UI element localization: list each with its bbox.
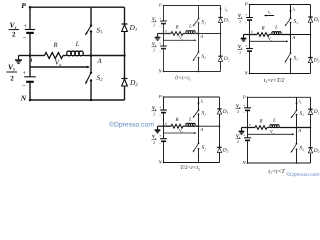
resistor sub2 R: [257, 33, 269, 37]
battery sub4 Vs/2 upper: [244, 107, 251, 109]
node sub1 0: [163, 33, 165, 35]
wire: left rail middle segment: [29, 33, 31, 77]
wire: sub2 branch left: [250, 34, 258, 36]
battery sub1 Vs/2 upper: [160, 20, 167, 22]
svg-text:P: P: [21, 1, 26, 10]
svg-text:2: 2: [153, 22, 155, 27]
inductor sub2 L: [269, 34, 271, 36]
svg-text:A: A: [297, 128, 301, 134]
svg-text:−: −: [243, 141, 245, 145]
switch sub2 S2: [290, 52, 292, 54]
inductor sub1 L: [183, 33, 185, 35]
switch S2: [90, 72, 92, 74]
svg-text:t1<t<T/2: t1<t<T/2: [264, 78, 285, 84]
svg-text:−: −: [22, 82, 26, 90]
svg-text:0: 0: [249, 123, 251, 127]
node sub1 N: [163, 71, 165, 73]
ground sub3: [158, 125, 164, 127]
switch sub3 S1: [198, 109, 200, 111]
diode sub2 D2: [308, 56, 312, 58]
node sub4 P: [247, 97, 249, 99]
diode sub1 D1: [218, 16, 222, 18]
node sub2 A: [290, 34, 292, 36]
svg-text:T/2<t<t2: T/2<t<t2: [180, 165, 200, 171]
svg-text:R: R: [174, 24, 178, 30]
wire: sub1 left rail mid: [163, 24, 165, 46]
node sub2 P: [249, 4, 251, 6]
wire: sub4 S-rail mid: [296, 115, 298, 144]
svg-text:2: 2: [153, 111, 155, 116]
resistor R: [45, 53, 64, 59]
wire: D-rail between D1 and junction: [124, 32, 126, 79]
svg-text:L: L: [188, 24, 192, 30]
svg-text:−: −: [159, 49, 161, 53]
wire: branch from node 0 to resistor: [30, 55, 45, 57]
diode sub3 D1: [217, 108, 221, 110]
wire: main top bus P to D-rail: [30, 6, 125, 8]
svg-text:0<t<t1: 0<t<t1: [175, 76, 191, 82]
switch sub2 S1: [290, 17, 292, 19]
wire: sub2 D-rail top: [310, 5, 312, 17]
resistor sub1 R: [171, 32, 183, 36]
wire: S-rail between S1 and node A: [90, 32, 92, 56]
ground sub2: [244, 34, 250, 36]
svg-text:R: R: [260, 25, 264, 31]
svg-text:+: +: [159, 17, 161, 21]
node: sub2 D-rail junction: [310, 34, 312, 36]
wire: sub4 left rail mid: [247, 110, 249, 137]
svg-text:L: L: [272, 118, 276, 124]
svg-text:P: P: [242, 95, 246, 100]
node N: [29, 99, 32, 102]
wire: sub3 left rail: [163, 97, 165, 110]
wire: sub2 left rail lower: [249, 51, 251, 73]
wire: sub3 D-rail top: [219, 97, 221, 109]
switch sub3 S2: [198, 142, 200, 144]
switch sub1 S2: [198, 51, 200, 53]
annotation: sub2 io current arrow (left, top): [265, 15, 274, 17]
svg-text:P: P: [158, 94, 162, 99]
wire: sub3 S-rail mid: [198, 114, 200, 143]
wire: sub3 left rail mid: [163, 113, 165, 139]
wire: sub2 top bus: [250, 4, 311, 6]
wire: sub2 S-rail mid: [290, 23, 292, 54]
node sub3 P: [163, 96, 165, 98]
wire: D-rail top segment: [124, 7, 126, 24]
node sub2 0: [249, 34, 251, 36]
wire: node A to D-rail junction: [91, 55, 125, 57]
wire: sub2 node A to D-rail: [291, 34, 311, 36]
node sub2 N: [249, 73, 251, 75]
wire: S-rail bottom segment: [90, 81, 92, 101]
wire: S-rail top segment: [90, 7, 92, 26]
svg-text:0: 0: [165, 29, 167, 33]
svg-text:+: +: [159, 106, 161, 110]
svg-text:+: +: [159, 134, 161, 138]
svg-text:2: 2: [10, 74, 14, 82]
ground: [18, 56, 20, 61]
svg-text:−: −: [245, 21, 247, 25]
wire: sub4 top bus: [248, 96, 311, 98]
ground sub1: [158, 33, 164, 35]
svg-text:0: 0: [165, 122, 167, 126]
battery sub3 Vs/2 upper: [160, 109, 167, 111]
switch sub1 S1: [198, 18, 200, 20]
battery sub3 Vs/2 lower: [160, 138, 167, 140]
node: S-rail bottom junction: [90, 99, 92, 101]
switch sub4 S1: [296, 110, 298, 112]
wire: sub4 branch left: [248, 127, 256, 129]
wire: sub1 left rail lower: [163, 49, 165, 72]
svg-text:2: 2: [237, 139, 239, 144]
wire: sub2 S-rail bottom: [290, 59, 292, 73]
node sub3 0: [163, 125, 165, 127]
diode D2: [122, 78, 128, 80]
diode sub4 D1: [308, 108, 312, 110]
resistor sub3 R: [171, 124, 183, 128]
svg-text:t2<t<T: t2<t<T: [268, 169, 285, 175]
wire: sub2 D-rail bottom: [310, 63, 312, 74]
node: sub4 D-rail junction: [310, 127, 312, 129]
svg-text:L: L: [274, 25, 278, 31]
svg-text:L: L: [75, 41, 80, 48]
svg-text:©Dpresso.com: ©Dpresso.com: [286, 172, 319, 178]
wire: sub4 D-rail top: [310, 97, 312, 109]
inductor sub4 L: [267, 127, 269, 129]
svg-text:©Dpresso.com: ©Dpresso.com: [109, 122, 154, 129]
svg-text:R: R: [174, 117, 178, 123]
wire: sub2 left rail mid: [249, 20, 251, 48]
annotation: output voltage Vo arrow: [31, 66, 89, 68]
wire: sub4 inductor to node A: [280, 127, 297, 129]
annotation: sub4 Vo arrow: [248, 133, 293, 135]
diode sub4 D2: [308, 147, 312, 149]
svg-text:−: −: [243, 111, 245, 115]
node: sub1 D-rail junction: [220, 33, 222, 35]
wire: sub1 left rail: [163, 6, 165, 22]
battery Vs/2 lower: [24, 76, 36, 78]
svg-text:N: N: [20, 94, 27, 103]
diode D1: [122, 23, 128, 25]
svg-text:+: +: [245, 44, 247, 48]
wire: sub3 S-rail bottom: [198, 149, 200, 163]
svg-text:−: −: [245, 52, 247, 56]
svg-text:2: 2: [239, 19, 241, 24]
wire: sub3 branch left: [164, 125, 172, 127]
wire: left rail lower segment: [29, 82, 31, 100]
wire: left rail upper segment: [29, 7, 31, 29]
svg-text:−: −: [159, 113, 161, 117]
diode sub2 D1: [308, 16, 312, 18]
node sub1 P: [163, 5, 165, 7]
wire: sub4 left rail: [247, 97, 249, 108]
wire: inductor to node A: [84, 55, 91, 57]
node 0 (junction dot + label): [29, 54, 32, 57]
battery sub1 Vs/2 lower: [160, 45, 167, 47]
wire: sub3 left rail lower: [163, 141, 165, 162]
node sub4 A: [296, 127, 298, 129]
svg-text:P: P: [244, 2, 248, 7]
wire: sub3 S-rail top: [198, 97, 200, 110]
wire: S-rail between node A and S2: [90, 56, 92, 73]
node sub3 A: [198, 125, 200, 127]
wire: sub2 left rail: [249, 5, 251, 18]
svg-text:A: A: [96, 57, 102, 65]
wire: sub3 node A to D-rail: [199, 125, 220, 127]
caption: interval 0&lt;t&lt;t1: [175, 76, 191, 82]
svg-text:+: +: [243, 103, 245, 107]
node P: [29, 6, 32, 9]
wire: sub3 D-rail mid: [219, 114, 221, 147]
diode sub3 D2: [217, 146, 221, 148]
inductor L: [66, 55, 84, 57]
node A: [90, 54, 93, 57]
node sub4 0: [247, 127, 249, 129]
wire: sub3 top bus: [164, 96, 220, 98]
wire: sub1 D-rail bottom: [220, 61, 222, 71]
annotation: sub1 io current arrow (up, D-rail): [220, 8, 222, 14]
wire: sub4 S-rail top: [296, 97, 298, 110]
node sub4 N: [247, 162, 249, 164]
svg-text:A: A: [291, 35, 295, 41]
inductor sub3 L: [183, 125, 185, 127]
svg-text:R: R: [52, 42, 57, 49]
svg-text:R: R: [258, 118, 262, 124]
annotation: sub3 Vo arrow: [164, 132, 195, 134]
wire: sub2 D-rail mid: [310, 22, 312, 57]
svg-text:0: 0: [251, 30, 253, 34]
wire: sub1 S-rail bottom: [198, 58, 200, 72]
wire: sub1 D-rail top: [220, 6, 222, 18]
svg-text:+: +: [243, 133, 245, 137]
svg-text:+: +: [22, 70, 26, 77]
wire: sub1 D-rail mid: [220, 23, 222, 57]
wire: sub1 S-rail top: [198, 6, 200, 19]
svg-text:L: L: [188, 116, 192, 122]
annotation: sub4 iL current arrow (down, S-rail): [296, 98, 298, 104]
node: D-rail junction: [123, 54, 125, 56]
node sub1 A: [198, 33, 200, 35]
svg-text:2: 2: [237, 109, 239, 114]
wire: sub1 branch left: [164, 33, 172, 35]
ground sub4: [242, 127, 248, 129]
wire: main bottom bus N to D-rail: [30, 99, 125, 101]
battery sub2 Vs/2 upper: [246, 17, 253, 19]
node sub3 N: [163, 162, 165, 164]
svg-text:−: −: [159, 24, 161, 28]
wire: sub3 bottom bus: [164, 162, 220, 164]
wire: sub4 node A to D-rail: [297, 127, 311, 129]
wire: sub3 inductor to node A: [196, 125, 199, 127]
annotation: sub2 iL current arrow (down, S-rail): [290, 6, 292, 12]
wire: resistor to inductor: [63, 55, 66, 57]
wire: sub1 inductor to node A: [196, 33, 199, 35]
wire: sub1 S-rail mid: [198, 23, 200, 52]
annotation: sub1 Vo arrow: [164, 39, 195, 41]
switch S1: [90, 25, 92, 27]
annotation: sub3 iL current arrow (down, S-rail): [198, 98, 200, 104]
wire: sub4 left rail lower: [247, 140, 249, 163]
svg-text:+: +: [23, 23, 27, 30]
svg-text:−: −: [23, 34, 27, 42]
svg-text:A: A: [199, 34, 203, 40]
wire: sub1 bottom bus: [164, 71, 221, 73]
resistor sub4 R: [255, 126, 267, 130]
switch sub4 S2: [296, 143, 298, 145]
wire: D-rail bottom segment: [124, 86, 126, 100]
battery sub4 Vs/2 lower: [244, 137, 251, 139]
wire: sub3 D-rail bottom: [219, 153, 221, 163]
svg-text:2: 2: [12, 31, 16, 39]
wire: sub1 node A to D-rail: [199, 33, 221, 35]
battery sub2 Vs/2 lower: [246, 48, 253, 50]
svg-text:2: 2: [239, 50, 241, 55]
svg-text:P: P: [158, 3, 162, 8]
svg-text:2: 2: [153, 140, 155, 145]
wire: ground branch to node 0: [19, 55, 31, 57]
svg-text:2: 2: [153, 47, 155, 52]
battery Vs/2 upper: [25, 29, 35, 31]
wire: sub2 inductor to node A: [282, 34, 291, 36]
wire: sub2 bottom bus: [250, 73, 311, 75]
svg-text:A: A: [199, 127, 203, 133]
svg-text:+: +: [159, 42, 161, 46]
diode sub1 D2: [218, 55, 222, 57]
wire: sub2 S-rail top: [290, 5, 292, 19]
annotation: sub2 Vo arrow: [250, 40, 287, 42]
svg-text:−: −: [159, 142, 161, 146]
wire: sub4 S-rail bottom: [296, 149, 298, 163]
node: sub3 D-rail junction: [219, 125, 221, 127]
wire: sub4 bottom bus: [248, 162, 311, 164]
wire: sub4 D-rail mid: [310, 114, 312, 147]
wire: sub4 D-rail bottom: [310, 153, 312, 163]
wire: sub1 top bus: [164, 5, 221, 7]
svg-text:+: +: [245, 13, 247, 17]
svg-text:0: 0: [29, 58, 32, 64]
